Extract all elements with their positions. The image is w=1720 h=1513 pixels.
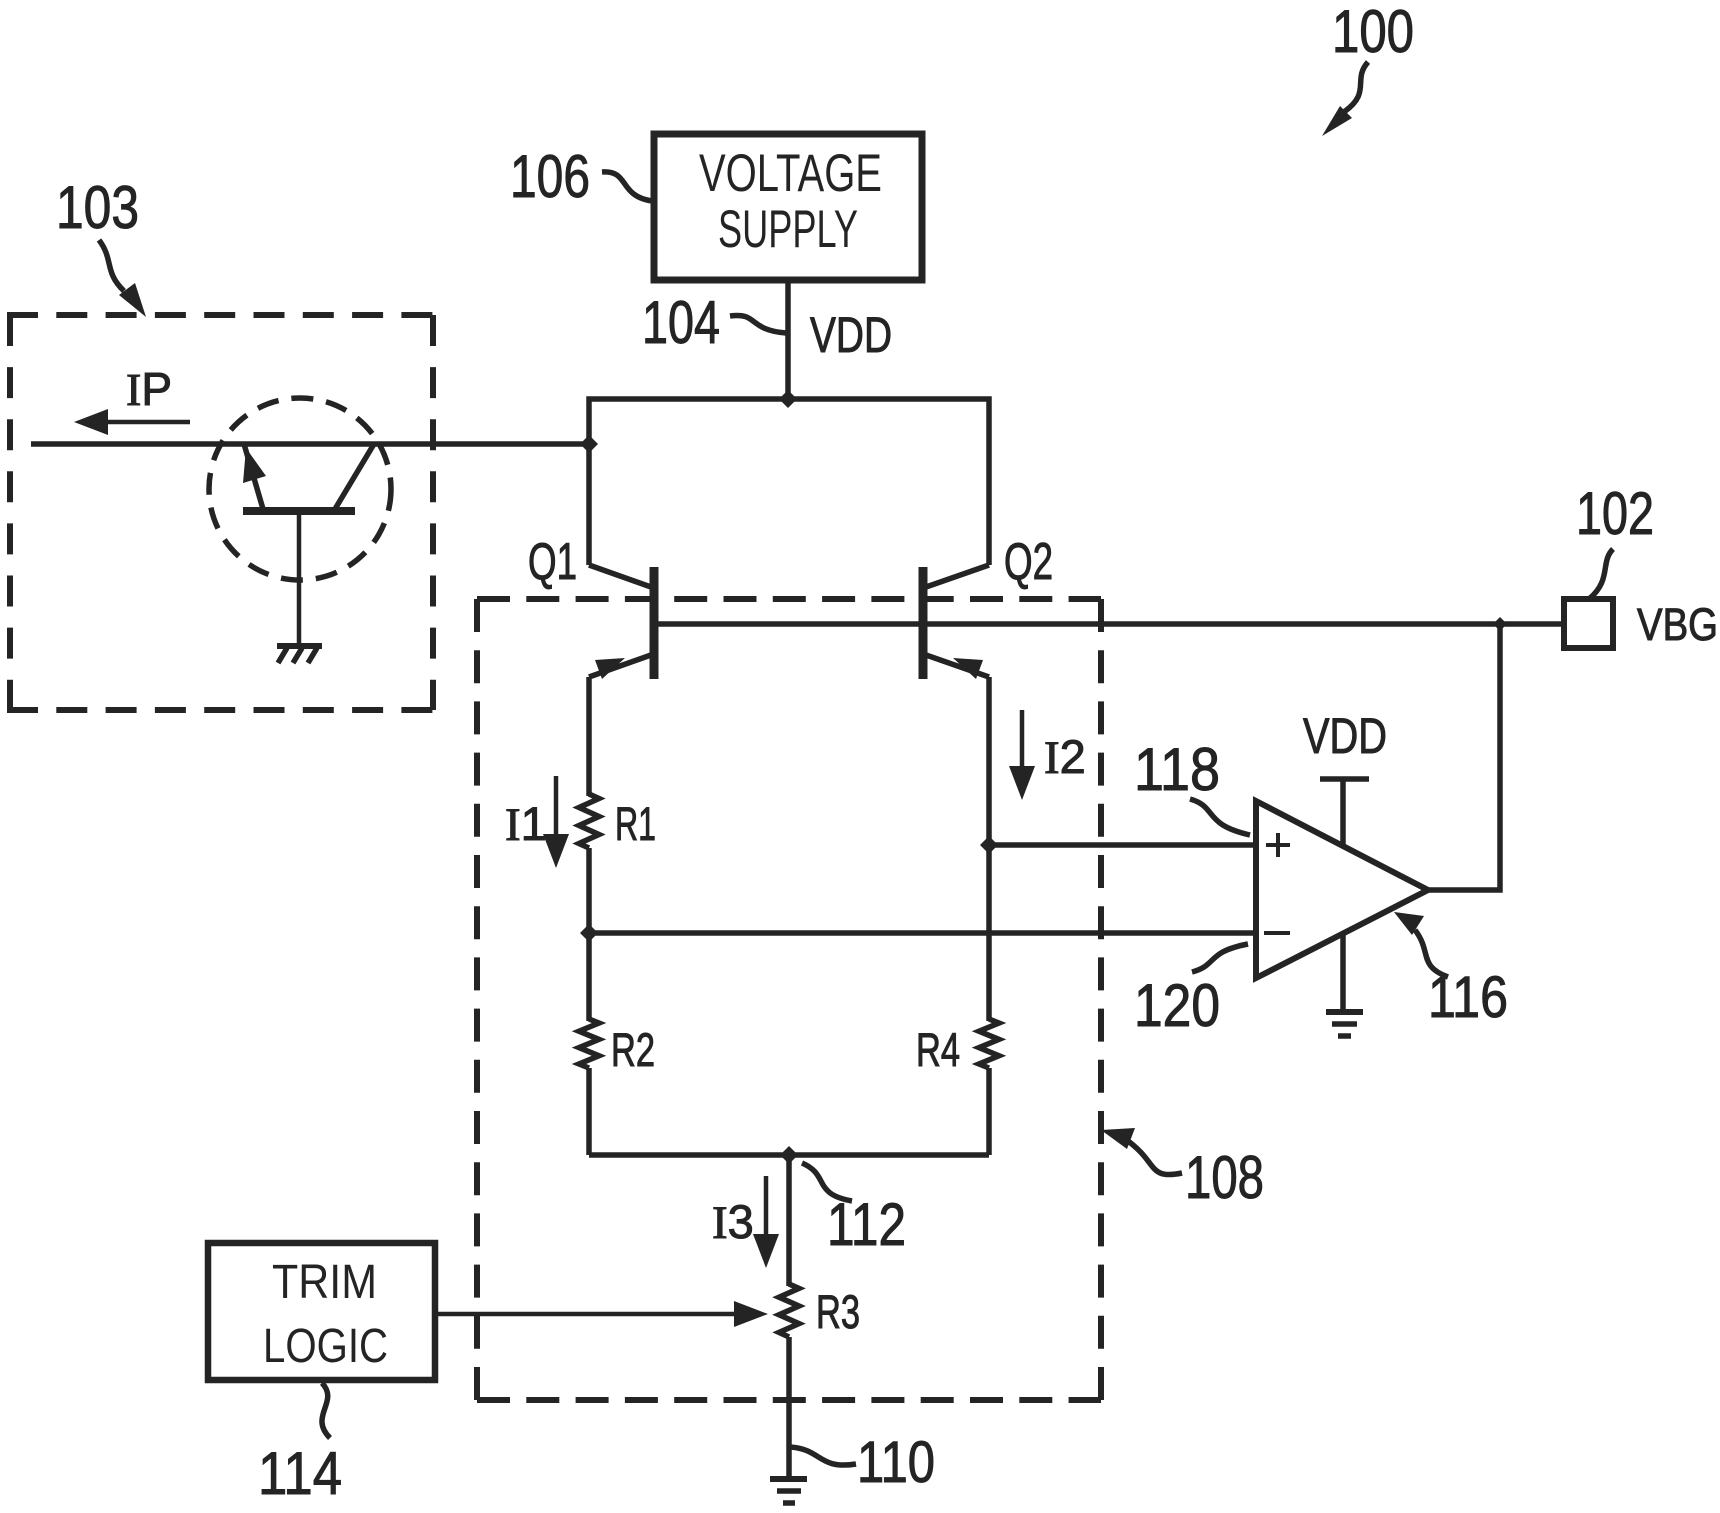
resistor R2 — [579, 1019, 655, 1076]
wire minus input — [589, 930, 1256, 936]
wire IP output — [31, 441, 589, 447]
svg-text:104: 104 — [642, 289, 720, 356]
dashed box 108 — [477, 599, 1101, 1400]
label 112 — [802, 1163, 906, 1258]
svg-text:R1: R1 — [615, 797, 656, 850]
node R1-R2 (minus input net) — [580, 924, 598, 942]
node VDD rail junction — [779, 390, 797, 408]
svg-text:R4: R4 — [916, 1023, 960, 1076]
current arrow I3 — [712, 1176, 779, 1268]
label 108 — [1101, 1128, 1264, 1211]
wire VBG to op-amp output — [1428, 624, 1500, 890]
svg-text:VBG: VBG — [1637, 599, 1718, 650]
wire R4 to bottom rail — [986, 1068, 992, 1155]
op-amp 116 — [1256, 801, 1428, 978]
ground (chassis) in block 103 — [277, 646, 322, 663]
transistor Q1 — [528, 533, 654, 679]
wire VDD supply — [785, 280, 791, 399]
ground 110 — [770, 1479, 807, 1503]
svg-text:R2: R2 — [611, 1023, 655, 1076]
label 104 — [642, 289, 786, 356]
label 118 — [1134, 736, 1250, 835]
label 110 — [790, 1430, 935, 1495]
label 120 — [1134, 944, 1248, 1039]
label 116 — [1394, 912, 1508, 1030]
svg-text:114: 114 — [258, 1440, 342, 1507]
svg-text:VDD: VDD — [810, 307, 892, 363]
wire node 112 to R3 — [786, 1155, 792, 1286]
resistor R4 — [916, 1019, 999, 1076]
resistor R1 — [579, 794, 656, 850]
wire plus input — [989, 842, 1256, 848]
label 102 — [1576, 480, 1654, 599]
node VBG junction — [1493, 617, 1507, 631]
svg-text:R3: R3 — [816, 1285, 860, 1338]
svg-text:VOLTAGE: VOLTAGE — [699, 144, 882, 203]
svg-text:TRIM: TRIM — [272, 1256, 377, 1309]
svg-text:Q2: Q2 — [1004, 533, 1053, 591]
svg-text:106: 106 — [510, 143, 590, 210]
svg-text:VDD: VDD — [1303, 708, 1387, 764]
wire bases to VBG — [658, 621, 1564, 627]
wire Q1 collector to R1 — [586, 677, 592, 796]
wire R3 to ground — [786, 1337, 792, 1478]
wire R1 to node — [586, 848, 592, 1021]
svg-text:LOGIC: LOGIC — [263, 1320, 388, 1373]
svg-text:I2: I2 — [1044, 730, 1086, 784]
svg-text:108: 108 — [1185, 1144, 1264, 1211]
node 112 — [780, 1146, 798, 1164]
svg-text:I3: I3 — [712, 1195, 754, 1249]
trim logic box 114 — [208, 1243, 435, 1380]
transistor (PNP mirror) in block 103 — [209, 398, 391, 644]
node Q2-R4 (plus input net) — [980, 836, 998, 854]
pad 102 (VBG output) — [1564, 599, 1613, 648]
svg-text:110: 110 — [857, 1430, 935, 1495]
op-amp VDD stub — [1303, 708, 1387, 846]
svg-text:112: 112 — [827, 1191, 906, 1258]
svg-text:118: 118 — [1134, 736, 1220, 803]
wire Q2 collector to R4 — [986, 677, 992, 1021]
dashed box 103 — [7, 315, 433, 710]
label 106 — [510, 143, 652, 210]
current arrow I1 — [505, 776, 569, 868]
svg-text:102: 102 — [1576, 480, 1654, 547]
trim control arrow — [438, 1301, 768, 1327]
op-amp ground — [1326, 934, 1363, 1036]
svg-text:103: 103 — [56, 174, 139, 241]
svg-text:Q1: Q1 — [528, 533, 577, 591]
svg-text:SUPPLY: SUPPLY — [718, 200, 858, 259]
svg-text:116: 116 — [1428, 965, 1508, 1030]
svg-text:IP: IP — [126, 363, 172, 415]
label 114 — [258, 1383, 342, 1507]
svg-text:100: 100 — [1332, 0, 1414, 65]
label 103 — [56, 174, 146, 317]
wire bottom rail — [589, 1152, 989, 1158]
resistor R3 (trimmable) — [779, 1284, 860, 1338]
transistor Q2 — [923, 533, 1053, 679]
wire VDD top rail — [589, 399, 989, 565]
svg-text:I1: I1 — [505, 797, 547, 851]
svg-text:120: 120 — [1134, 972, 1220, 1039]
label 100 — [1322, 0, 1414, 136]
wire R2 to bottom rail — [586, 1068, 592, 1155]
voltage supply box 106 — [654, 134, 922, 280]
current arrow IP — [74, 363, 190, 435]
current arrow I2 — [1009, 710, 1086, 800]
node wire-rail junction — [580, 435, 598, 453]
